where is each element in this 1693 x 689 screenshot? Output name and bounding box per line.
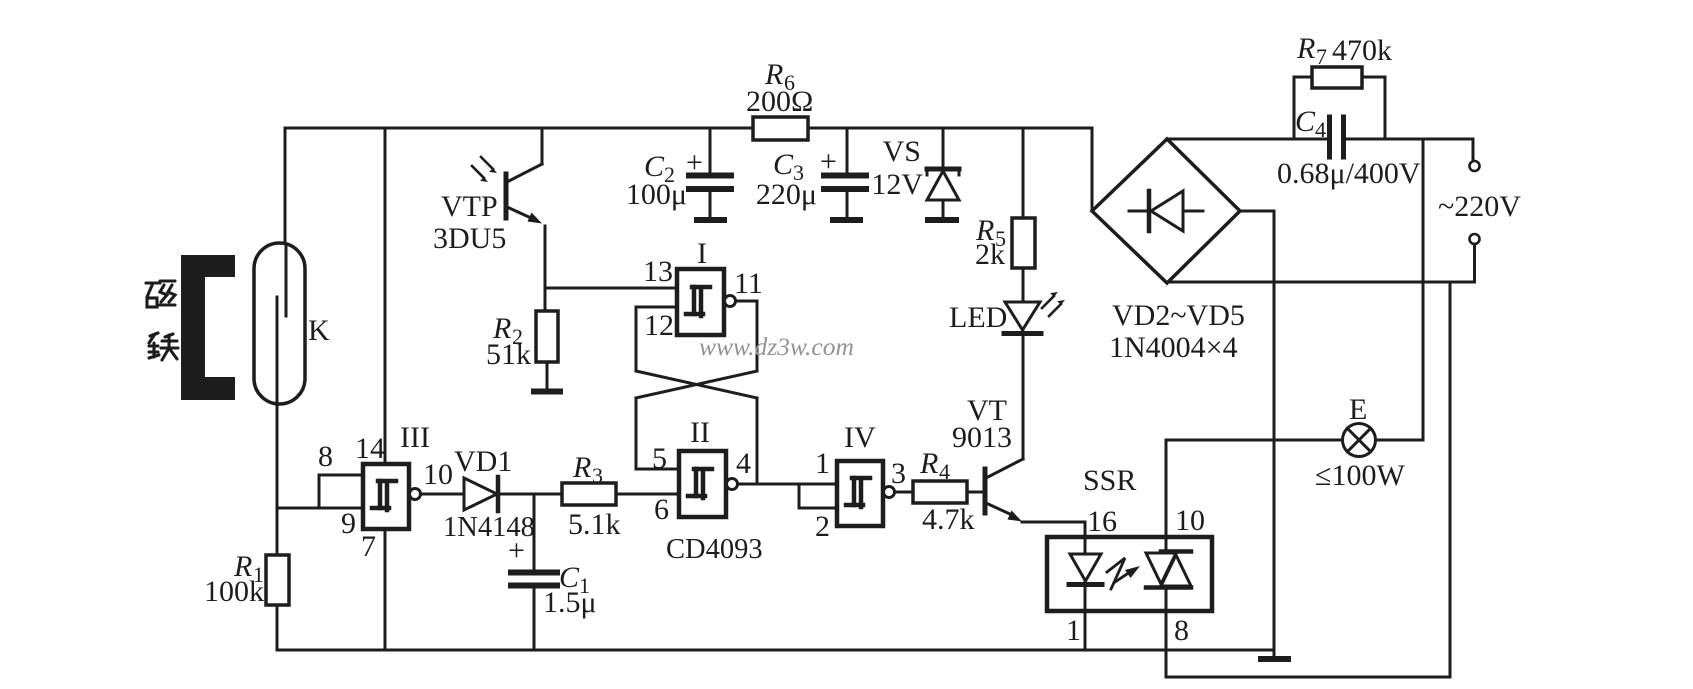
label R5 2k (975, 214, 1006, 271)
lamp E (1343, 424, 1376, 457)
svg-text:+: + (820, 145, 837, 178)
svg-text:VTP: VTP (441, 190, 498, 223)
wire AC bottom rail from bridge (1167, 281, 1475, 284)
gate IV box (837, 461, 883, 526)
svg-text:12V: 12V (871, 168, 923, 201)
resistor R1 (266, 555, 289, 605)
label C3 + 220u (756, 145, 837, 211)
svg-text:8: 8 (1174, 614, 1189, 647)
label 14 (355, 432, 385, 465)
svg-text:II: II (690, 416, 710, 449)
transistor VT base bar (983, 469, 988, 513)
gate IV output bubble (884, 487, 895, 498)
label ~220V (1438, 190, 1521, 223)
wire VDD drop to gate III pin 14 (384, 128, 387, 464)
svg-text:2k: 2k (975, 238, 1005, 271)
svg-text:3: 3 (891, 457, 906, 490)
label C2 + 100u (626, 146, 703, 211)
label R4 4.7k (919, 447, 975, 536)
wire gate I pin 11 output (736, 300, 757, 303)
svg-text:8: 8 (318, 440, 333, 473)
watermark (699, 332, 854, 361)
wire bridge top corner to C4 (1167, 138, 1327, 141)
wire gate II output pin 4 (738, 483, 837, 486)
resistor R5 (1012, 128, 1035, 302)
label 铁 (149, 333, 178, 360)
VTP emitter with arrow (507, 207, 545, 311)
gate II hysteresis symbol (688, 469, 712, 498)
label 1 (1066, 614, 1081, 647)
svg-text:VD1: VD1 (454, 445, 512, 478)
label LED (949, 301, 1007, 334)
svg-text:+: + (686, 146, 703, 179)
label 磁 (146, 281, 175, 307)
label 8 (318, 440, 333, 473)
label R1 100k (204, 550, 264, 608)
gate I output bubble (725, 296, 736, 307)
svg-text:VS: VS (883, 135, 921, 168)
wire bottom rail (277, 649, 1274, 652)
resistor R6 (753, 117, 808, 140)
svg-text:220μ: 220μ (756, 178, 817, 211)
reed switch K capsule (254, 243, 305, 404)
label 10 (423, 458, 453, 491)
VTP collector (507, 128, 542, 182)
wire cross-coupling diagonals (636, 371, 757, 398)
label 10 (1175, 504, 1205, 537)
label SSR (1083, 464, 1136, 497)
zener diode VS (927, 128, 959, 217)
svg-text:E: E (1349, 393, 1367, 426)
label <=100W (1315, 459, 1405, 492)
wire gate IV pin 2 step (799, 484, 837, 508)
gate II box (679, 451, 726, 517)
svg-text:470k: 470k (1332, 34, 1392, 67)
label R2 51k (486, 312, 531, 371)
VS ground bar (928, 217, 956, 223)
svg-text:CD4093: CD4093 (666, 534, 763, 565)
svg-text:1.5μ: 1.5μ (543, 586, 597, 619)
SSR box (1047, 537, 1212, 611)
label 4 (736, 447, 751, 480)
SSR optocoupler arrow (1107, 558, 1140, 589)
svg-text:7: 7 (1316, 44, 1327, 69)
svg-text:200Ω: 200Ω (746, 85, 813, 118)
label 6 (654, 493, 669, 526)
wire lamp feed vertical (1422, 139, 1425, 440)
label K (308, 314, 330, 347)
svg-text:LED: LED (949, 301, 1007, 334)
label 9 (341, 507, 356, 540)
label 1 (815, 447, 830, 480)
resistor R7 parallel loop (1294, 77, 1385, 139)
R2 ground bar (534, 389, 560, 395)
gate II output bubble (727, 479, 738, 490)
label C4 (1295, 105, 1326, 142)
svg-text:K: K (308, 314, 330, 347)
resistor R3 (562, 483, 616, 505)
LED emission arrows (1042, 292, 1065, 316)
label IV (844, 421, 876, 454)
label + C1 1.5u (508, 534, 597, 619)
bridge rectifier VD2~VD5 (1092, 139, 1240, 283)
svg-text:14: 14 (355, 432, 385, 465)
wire gate III pin 7 to bottom rail (384, 529, 387, 650)
svg-text:+: + (508, 534, 525, 567)
SSR internal LED (1069, 537, 1102, 611)
wire top supply rail (285, 127, 1092, 130)
svg-text:4: 4 (1315, 117, 1326, 142)
svg-text:R: R (919, 447, 938, 480)
wire gate I pin 13 (545, 287, 677, 290)
svg-text:2: 2 (815, 510, 830, 543)
svg-text:7: 7 (361, 530, 376, 563)
magnet symbol 磁铁 bracket (181, 255, 235, 400)
resistor R2 (536, 311, 558, 389)
transistor VT emitter with arrow (986, 503, 1085, 537)
wire R4 to VT base (967, 491, 983, 494)
gate I box (677, 269, 724, 335)
terminal ~220V bottom (1470, 234, 1480, 244)
gate III hysteresis symbol (372, 481, 396, 510)
reed switch contacts (277, 245, 286, 404)
gate I hysteresis symbol (686, 287, 710, 316)
SSR internal triac (1146, 537, 1191, 611)
bridge inner diode (1129, 191, 1203, 231)
wire gate III pin 9 (277, 507, 363, 510)
gate III output bubble (410, 489, 421, 500)
svg-text:10: 10 (1175, 504, 1205, 537)
diode VD1 (464, 477, 498, 511)
wire rail to bridge left corner (1091, 128, 1094, 211)
wire SSR pin 1 to bottom rail (1084, 611, 1087, 650)
svg-text:4.7k: 4.7k (922, 503, 975, 536)
wire gate III pin 10 to VD1 (421, 493, 464, 496)
svg-text:100k: 100k (204, 575, 264, 608)
capacitor C3 (824, 128, 866, 217)
svg-text:100μ: 100μ (626, 178, 687, 211)
svg-text:11: 11 (734, 267, 763, 300)
label VD2~VD5 1N4004x4 (1109, 299, 1245, 364)
wire left drop to reed switch (284, 128, 287, 243)
gate III box (363, 464, 409, 529)
label 11 (734, 267, 763, 300)
svg-text:9013: 9013 (952, 421, 1012, 454)
svg-text:6: 6 (654, 493, 669, 526)
label 7 (361, 530, 376, 563)
label I (697, 237, 707, 270)
wire lamp left lead to SSR pin 10 (1166, 440, 1343, 537)
C2 ground bar (697, 217, 724, 223)
wire R3 to gate II pin 6 (616, 493, 679, 496)
svg-text:IV: IV (844, 421, 876, 454)
svg-text:VD2~VD5: VD2~VD5 (1112, 299, 1245, 332)
gate IV hysteresis symbol (846, 478, 870, 507)
svg-text:9: 9 (341, 507, 356, 540)
svg-text:4: 4 (736, 447, 751, 480)
svg-text:4: 4 (939, 459, 950, 484)
svg-text:3: 3 (592, 463, 603, 488)
svg-text:5.1k: 5.1k (568, 508, 621, 541)
label VTP 3DU5 (433, 190, 506, 255)
label R7 470k (1296, 32, 1392, 69)
label III (400, 421, 430, 454)
wire cross-coupling right vertical (756, 301, 759, 484)
label 16 (1087, 505, 1117, 538)
svg-text:12: 12 (644, 309, 674, 342)
label 0.68u/400V (1277, 157, 1421, 190)
svg-text:III: III (400, 421, 430, 454)
svg-text:3DU5: 3DU5 (433, 222, 506, 255)
svg-text:www.dz3w.com: www.dz3w.com (699, 332, 854, 361)
label R3 5.1k (568, 451, 621, 541)
transistor VT collector (986, 332, 1023, 478)
label VD1 1N4148 (443, 445, 535, 543)
svg-text:R: R (1296, 32, 1315, 65)
svg-text:0.68μ/400V: 0.68μ/400V (1277, 157, 1421, 190)
wire C4 to terminal (1346, 139, 1473, 161)
wire R1 to bottom rail (276, 605, 279, 650)
resistor R7 (1312, 67, 1362, 88)
phototransistor VTP base bar (504, 174, 509, 218)
svg-text:≤100W: ≤100W (1315, 459, 1405, 492)
svg-text:10: 10 (423, 458, 453, 491)
VTP light arrows (472, 157, 497, 182)
capacitor C1 (511, 494, 557, 650)
label CD4093 (666, 534, 763, 565)
LED (1004, 302, 1041, 459)
label 5 (652, 442, 667, 475)
wire bottom terminal to AC rail (1473, 244, 1476, 282)
label 2 (815, 510, 830, 543)
label 3 (891, 457, 906, 490)
svg-text:51k: 51k (486, 338, 531, 371)
label E (1349, 393, 1367, 426)
svg-text:1: 1 (1066, 614, 1081, 647)
svg-text:I: I (697, 237, 707, 270)
terminal ~220V top (1470, 161, 1480, 171)
wire gate I pin 12 (636, 306, 677, 309)
wire gate III pin 8 step (319, 475, 363, 508)
svg-text:13: 13 (643, 255, 673, 288)
svg-text:C: C (773, 148, 794, 181)
wire bridge right corner to ground drop (1240, 211, 1274, 656)
wire SSR pin 8 loop (1166, 611, 1450, 677)
svg-text:1N4004×4: 1N4004×4 (1109, 331, 1238, 364)
label 8 (1174, 614, 1189, 647)
label R6 200ohm (746, 58, 813, 118)
ground (1261, 656, 1288, 662)
capacitor C4 (1330, 117, 1344, 157)
label VS 12V (871, 135, 923, 201)
wire reed switch to R1 (276, 404, 279, 555)
svg-text:C: C (1295, 105, 1316, 138)
svg-text:SSR: SSR (1083, 464, 1136, 497)
label II (690, 416, 710, 449)
label 13 (643, 255, 673, 288)
wire gate IV pin 3 to R4 (895, 491, 913, 494)
wire cross-coupling left vertical (636, 307, 679, 469)
svg-text:16: 16 (1087, 505, 1117, 538)
svg-text:~220V: ~220V (1438, 190, 1521, 223)
wire lamp right lead (1376, 439, 1424, 442)
resistor R4 (913, 481, 967, 503)
wire AC return vertical (1449, 282, 1452, 677)
label 12 (644, 309, 674, 342)
C3 ground bar (833, 217, 860, 223)
svg-text:1: 1 (815, 447, 830, 480)
wire VD1 to R3 (500, 493, 562, 496)
svg-text:R: R (572, 451, 591, 484)
label VT 9013 (952, 394, 1012, 454)
capacitor C2 (689, 128, 731, 217)
